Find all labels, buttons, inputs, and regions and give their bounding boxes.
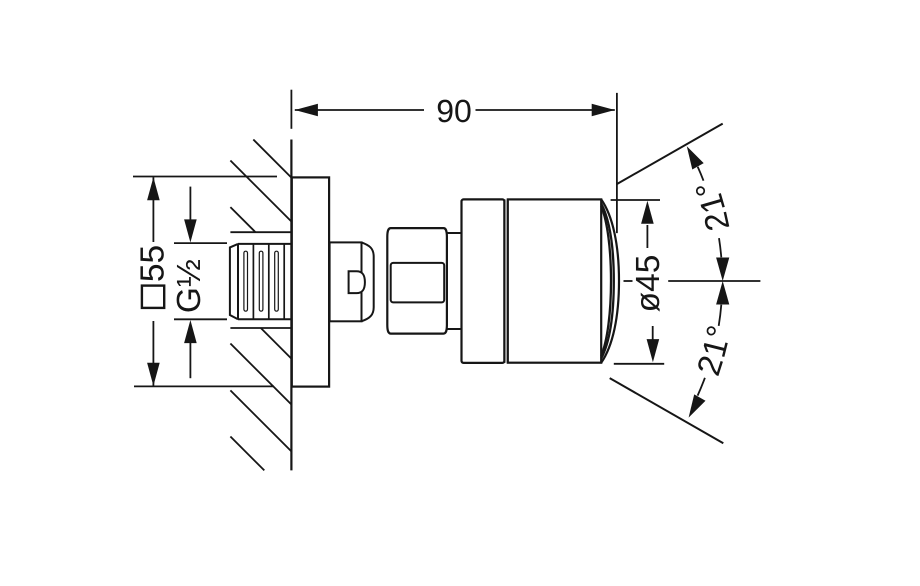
ball of ball joint [362,242,374,321]
G1/2 thread bottom edge [238,318,291,320]
thread divider 1 [252,244,254,319]
G1/2 bottom extension stub [174,318,227,320]
svg-text:ø45: ø45 [630,255,667,313]
G1/2 thread top edge [238,243,291,245]
neck upper line [447,232,462,234]
G1/2 thread cap chamfer [230,244,238,319]
wall hatch line A [253,140,291,178]
thread slot 2 [259,251,263,311]
centerline hourglass upper arrowhead [716,258,729,282]
square-55 top extension line [133,176,277,178]
nut hex band [391,263,445,303]
dimension 90 line right segment [476,109,615,111]
angle reference centerline [668,280,760,282]
diameter-45 upper arrowhead [641,201,654,224]
wall hatch line E [230,344,291,405]
set screw tab [349,271,365,293]
dimension 90 line left segment [295,109,424,111]
wall hatch line C2 [261,328,292,359]
svg-text:55: 55 [134,245,171,282]
square-55 bottom extension line [134,385,274,387]
wall hatch line F [230,390,291,451]
lower 21-degree leg line [610,378,724,443]
neck lower line [447,328,462,330]
wall hatch line G [230,437,264,471]
text square-55 square symbol [142,286,164,308]
swivel nut body [387,228,447,334]
G1/2 lower arrowhead [184,320,197,343]
diameter-45 top extension line [611,199,660,201]
wall hatch line C [230,207,255,232]
G1/2 upper arrowhead [184,219,197,242]
svg-text:90: 90 [436,93,472,129]
upper arc tail segment [698,167,704,181]
axis center dash at spray face [624,280,633,282]
thread divider 2 [268,244,270,319]
upper 21-degree leg line [617,124,723,184]
wall face line [290,140,292,471]
diameter-45 bottom extension line [614,363,664,365]
G1/2 top extension stub [174,242,227,244]
spray face outer arc [601,199,619,362]
collar groove right line [507,199,509,363]
thread slot 3 [275,251,279,311]
head body cylinder [508,199,601,362]
G1/2 thread cap right edge [237,244,239,319]
spray face inner arc [601,206,611,356]
square-55 bottom arrowhead [147,363,160,386]
supply stem [330,242,362,321]
square-55 top arrowhead [147,177,160,200]
dimension 90 right arrowhead [592,104,615,117]
collar groove left line [503,199,505,363]
thread slot 1 [244,251,248,311]
dimension 90 left extension line [290,90,292,129]
lower arc tail segment [698,378,705,396]
G1/2 upper arrow shaft [189,187,191,221]
thread divider 3 [283,244,285,319]
square-55 dimension line lower segment [152,321,154,386]
wall plate escutcheon 55x55 [292,177,329,386]
upper arc arrowhead at leg [687,146,704,169]
lower arc arrowhead at leg [689,394,706,417]
diameter-45 upper arrow shaft [646,225,648,248]
G1/2 lower arrow shaft [189,342,191,378]
head collar ring [462,199,505,363]
dimension 90 left arrowhead [295,104,318,117]
lower arc segment above text [719,305,722,326]
svg-text:G½: G½ [171,259,208,313]
dimension 90 right extension line [616,93,618,233]
square-55 dimension line upper segment [152,177,154,242]
wall hole lower edge [230,327,291,329]
centerline hourglass lower arrowhead [716,281,729,305]
diameter-45 lower arrowhead [647,339,660,362]
diameter-45 lower arrow shaft [652,326,654,340]
wall hatch line B [230,161,291,222]
spray face middle arc [601,204,614,359]
wall hole upper edge [230,231,291,233]
upper arc segment below text [719,238,721,257]
